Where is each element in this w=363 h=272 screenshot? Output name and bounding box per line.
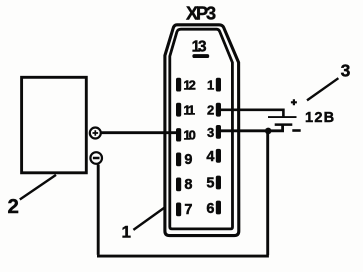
battery minus sign xyxy=(292,129,300,132)
leader line label 3 xyxy=(307,78,338,100)
wire: minus terminal down xyxy=(97,165,100,255)
svg-text:10: 10 xyxy=(183,128,195,143)
minus terminal circle xyxy=(90,152,102,164)
battery plate minus (short thick) xyxy=(275,123,293,126)
pin 11 xyxy=(176,103,181,117)
pin 8 xyxy=(176,178,181,192)
leader line label 2 xyxy=(20,175,56,200)
svg-text:3: 3 xyxy=(341,60,351,80)
svg-text:1: 1 xyxy=(122,222,131,241)
wire: bottom rail xyxy=(97,255,269,258)
svg-text:12: 12 xyxy=(183,77,195,92)
battery plus sign xyxy=(291,99,297,105)
pin 9 xyxy=(176,153,181,167)
svg-text:11: 11 xyxy=(183,102,195,117)
device box (item 2) xyxy=(22,77,87,173)
pin 6 xyxy=(216,201,221,215)
svg-text:13: 13 xyxy=(192,39,206,56)
svg-text:9: 9 xyxy=(184,152,192,168)
pin 13 (horizontal) xyxy=(192,54,209,58)
pin 10 xyxy=(176,128,181,141)
connector XP3 inner outline xyxy=(170,29,233,229)
pin 4 xyxy=(216,149,221,163)
svg-text:7: 7 xyxy=(184,202,192,218)
svg-text:3: 3 xyxy=(207,125,214,140)
wire: pin 3 to battery minus xyxy=(221,125,283,131)
svg-text:12В: 12В xyxy=(305,110,335,126)
pin 12 xyxy=(176,78,181,92)
svg-text:8: 8 xyxy=(184,177,192,193)
pin 7 xyxy=(176,203,181,217)
wire: plus terminal to pin 10 xyxy=(101,131,177,134)
svg-text:XP3: XP3 xyxy=(186,4,216,24)
svg-text:2: 2 xyxy=(207,102,214,117)
svg-text:1: 1 xyxy=(207,77,214,92)
connector XP3 outer outline xyxy=(165,25,239,236)
pin 5 xyxy=(216,176,221,190)
svg-text:5: 5 xyxy=(206,175,214,191)
pin 3 xyxy=(216,125,221,139)
pin 1 xyxy=(216,78,221,92)
junction dot battery minus node xyxy=(265,128,272,135)
battery plate plus (long) xyxy=(268,116,297,118)
svg-text:2: 2 xyxy=(8,195,19,218)
wire: pin 2 to battery plus xyxy=(220,110,283,117)
pin 2 xyxy=(216,103,221,117)
wire: battery minus branch down xyxy=(266,131,269,255)
svg-text:6: 6 xyxy=(206,201,214,217)
leader line label 1 xyxy=(133,207,165,230)
plus terminal circle xyxy=(90,128,101,139)
svg-text:4: 4 xyxy=(206,149,214,165)
